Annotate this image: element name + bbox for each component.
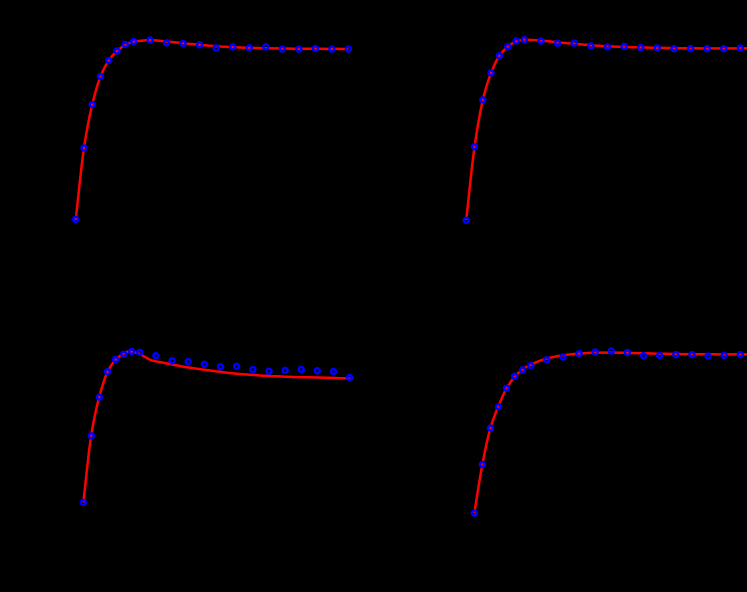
top-right panel: red fitted curve — [466, 40, 747, 220]
bottom-left panel: blue data point markers — [81, 349, 352, 505]
bottom-right panel: red fitted curve — [474, 353, 747, 513]
bottom-right panel: blue data point markers — [472, 349, 743, 516]
bottom-left panel: red fitted curve — [83, 352, 350, 503]
top-left panel: red fitted curve — [76, 40, 349, 220]
top-right panel: blue data point markers — [464, 37, 743, 223]
top-left panel: blue data point markers — [73, 38, 351, 222]
